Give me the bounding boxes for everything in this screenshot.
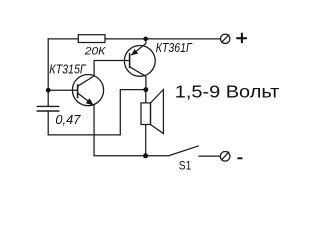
svg-text:0,47: 0,47 bbox=[55, 112, 81, 127]
svg-text:1,5-9 Вольт: 1,5-9 Вольт bbox=[175, 82, 279, 102]
svg-text:КТ315Г: КТ315Г bbox=[49, 62, 86, 77]
svg-text:S1: S1 bbox=[179, 159, 192, 172]
svg-text:20К: 20К bbox=[84, 46, 107, 58]
svg-text:КТ361Г: КТ361Г bbox=[156, 40, 193, 55]
